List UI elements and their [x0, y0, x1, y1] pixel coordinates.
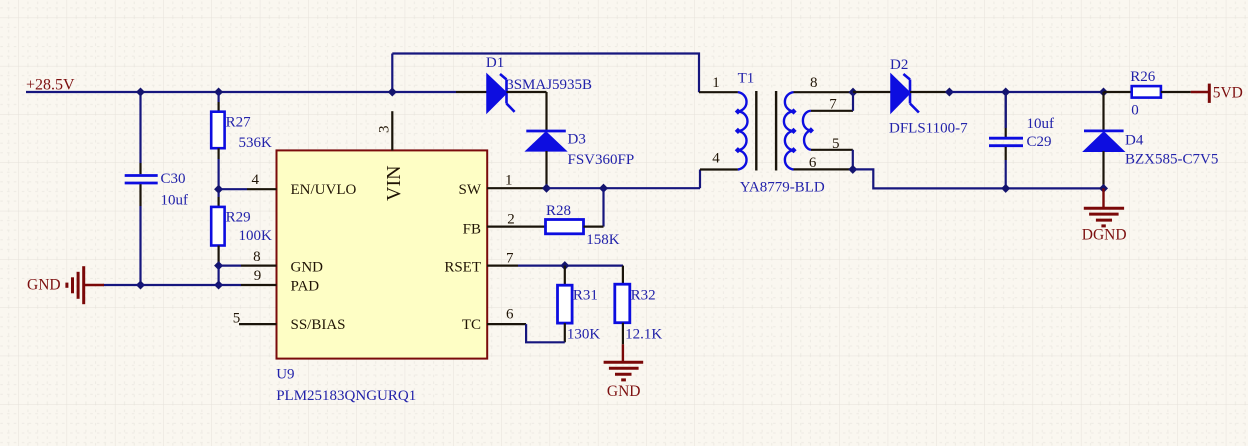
- svg-text:1: 1: [505, 173, 513, 189]
- junction D4 top: [1099, 87, 1108, 96]
- svg-text:10uf: 10uf: [1027, 116, 1055, 132]
- svg-text:EN/UVLO: EN/UVLO: [291, 182, 357, 198]
- svg-text:2: 2: [507, 212, 515, 228]
- svg-text:PLM25183QNGURQ1: PLM25183QNGURQ1: [276, 388, 416, 404]
- svg-text:D3: D3: [568, 132, 586, 148]
- svg-text:3SMAJ5935B: 3SMAJ5935B: [506, 77, 592, 93]
- svg-text:T1: T1: [738, 71, 755, 87]
- svg-text:6: 6: [809, 155, 817, 171]
- resistor R27: [211, 102, 224, 159]
- svg-text:1: 1: [712, 75, 720, 91]
- junction pin 9 node: [214, 280, 223, 289]
- power ground GND (below R32): [604, 344, 644, 380]
- junction VIN rail: [388, 87, 397, 96]
- power ground GND (left): [67, 266, 104, 304]
- junction pin 8 node: [214, 261, 223, 270]
- svg-text:6: 6: [506, 307, 514, 323]
- svg-text:C29: C29: [1027, 134, 1052, 150]
- capacitor C30: [125, 163, 158, 206]
- junction DGND node: [1099, 184, 1108, 193]
- junction C30 bottom: [136, 280, 145, 289]
- svg-text:9: 9: [254, 268, 262, 284]
- wire C30 drop: [139, 92, 141, 163]
- wire D1 to D3: [545, 92, 547, 130]
- junction EN node: [214, 185, 223, 194]
- power port 5VD: [1191, 84, 1210, 103]
- svg-text:5: 5: [233, 311, 241, 327]
- wire secondary low to bottom rail: [853, 169, 1104, 188]
- svg-text:GND: GND: [291, 260, 324, 276]
- junction C29 top: [1001, 87, 1010, 96]
- pin 5 (SS/BIAS) stub: [239, 323, 277, 325]
- wire R28 riser: [602, 188, 604, 226]
- junction C29 bottom: [1001, 184, 1010, 193]
- svg-text:130K: 130K: [567, 327, 601, 343]
- resistor R28: [546, 220, 604, 234]
- wire +28.5V rail: [26, 91, 456, 93]
- pin 8 (GND): [241, 265, 277, 267]
- svg-text:SS/BIAS: SS/BIAS: [291, 317, 346, 333]
- svg-text:BZX585-C7V5: BZX585-C7V5: [1125, 151, 1218, 167]
- svg-text:C30: C30: [161, 171, 186, 187]
- pin 1 (SW): [487, 187, 547, 189]
- svg-text:GND: GND: [27, 277, 61, 294]
- resistor R29: [211, 197, 224, 266]
- svg-text:R32: R32: [631, 288, 656, 304]
- pin 2 (FB): [487, 226, 546, 228]
- pin 4 (EN/UVLO): [247, 188, 277, 190]
- svg-text:FSV360FP: FSV360FP: [568, 152, 635, 168]
- svg-text:8: 8: [253, 249, 261, 265]
- resistor R32: [615, 266, 630, 345]
- junction R27 top: [214, 87, 223, 96]
- wire EN to pin 4: [219, 188, 247, 190]
- svg-text:100K: 100K: [239, 228, 273, 244]
- svg-text:GND: GND: [607, 383, 641, 400]
- op-amp U9 body: [277, 150, 488, 358]
- power ground DGND: [1084, 188, 1124, 226]
- svg-text:8: 8: [810, 75, 818, 91]
- svg-text:4: 4: [251, 172, 259, 188]
- svg-text:3: 3: [377, 126, 393, 134]
- wire pin 8 link: [219, 265, 241, 267]
- svg-text:12.1K: 12.1K: [625, 327, 662, 343]
- junction C30 top: [136, 87, 145, 96]
- wire output rail: [949, 91, 1103, 93]
- wire GND rail: [103, 284, 241, 286]
- svg-text:D1: D1: [486, 55, 504, 71]
- svg-text:VIN: VIN: [383, 165, 405, 201]
- wire C29 bottom stub: [1005, 160, 1007, 188]
- svg-text:R31: R31: [573, 288, 598, 304]
- pin 9 (PAD): [241, 284, 277, 286]
- junction R28 tap: [599, 184, 608, 193]
- junction pins 8-7: [848, 88, 857, 97]
- svg-text:SW: SW: [459, 182, 482, 198]
- pin 6 (TC): [487, 323, 526, 325]
- svg-text:U9: U9: [276, 367, 294, 383]
- svg-text:DFLS1100-7: DFLS1100-7: [889, 120, 968, 136]
- wire C29 top stub: [1005, 92, 1007, 128]
- svg-text:PAD: PAD: [291, 279, 320, 295]
- svg-text:RSET: RSET: [444, 260, 481, 276]
- svg-text:7: 7: [506, 251, 514, 267]
- pin 3 (VIN): [391, 111, 393, 150]
- svg-text:R29: R29: [226, 210, 251, 226]
- svg-text:0: 0: [1131, 102, 1139, 118]
- wire pins 8-7 link: [852, 92, 854, 111]
- svg-text:R26: R26: [1130, 69, 1156, 85]
- wire pins 5-6 link: [852, 150, 854, 170]
- svg-text:R27: R27: [226, 115, 252, 131]
- wire node riser 8-9: [218, 266, 220, 285]
- svg-text:5VD: 5VD: [1213, 84, 1243, 101]
- svg-text:R28: R28: [546, 203, 571, 219]
- wire RSET node: [518, 265, 623, 267]
- junction RSET node: [560, 261, 569, 270]
- wire SW to T1 pin 4: [699, 170, 701, 189]
- svg-text:YA8779-BLD: YA8779-BLD: [740, 179, 825, 195]
- wire SW node: [547, 187, 701, 189]
- svg-text:DGND: DGND: [1082, 227, 1127, 244]
- junction SW node: [542, 184, 551, 193]
- wire top link to T1 pin 1: [392, 54, 699, 93]
- resistor R31: [558, 266, 573, 343]
- diode D3: [526, 131, 566, 188]
- svg-text:D4: D4: [1125, 132, 1144, 148]
- diode D4: [1084, 92, 1124, 188]
- pin 7 (RSET): [487, 265, 518, 267]
- wire EN node vertical: [218, 159, 220, 197]
- resistor R26: [1104, 86, 1191, 98]
- svg-text:536K: 536K: [239, 135, 273, 151]
- svg-text:7: 7: [829, 97, 837, 113]
- capacitor C29: [989, 92, 1023, 160]
- wire C30 bottom: [139, 206, 141, 285]
- svg-text:158K: 158K: [586, 232, 620, 248]
- svg-text:TC: TC: [462, 317, 481, 333]
- svg-text:FB: FB: [463, 222, 481, 238]
- svg-text:+28.5V: +28.5V: [26, 77, 75, 94]
- wire VIN riser: [391, 54, 393, 93]
- svg-text:5: 5: [832, 136, 840, 152]
- diode D2: [853, 74, 949, 113]
- junction D2 output: [945, 87, 954, 96]
- transformer T1: [699, 91, 853, 171]
- svg-text:D2: D2: [890, 57, 908, 73]
- wire R27 top drop: [218, 92, 220, 102]
- junction pins 5-6: [848, 165, 857, 174]
- svg-text:4: 4: [712, 151, 720, 167]
- svg-text:10uf: 10uf: [161, 193, 189, 209]
- wire TC jog: [526, 324, 565, 342]
- diode D1: [456, 74, 547, 112]
